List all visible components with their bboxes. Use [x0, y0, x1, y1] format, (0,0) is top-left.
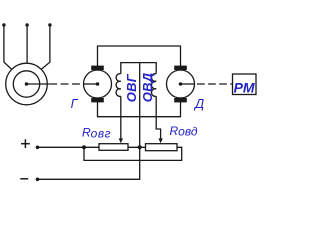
- shaft coupling M to G (dashed): [49, 83, 83, 85]
- shaft coupling D to RM (dashed): [197, 83, 233, 85]
- three-phase supply terminal dots: [2, 23, 51, 26]
- wire: armature top bus G-D: [98, 46, 181, 66]
- wire: plus bus to rheostats: [38, 146, 100, 148]
- junction A (plus bus): [82, 145, 86, 149]
- motor D armature: [167, 66, 195, 103]
- wire: plus bypass under rheostats to Rovd right end: [84, 147, 182, 160]
- field winding OVG (coil): [116, 63, 140, 140]
- junction B (minus bus): [138, 145, 142, 149]
- rheostat Rovd: [146, 144, 178, 151]
- wire: armature bottom bus G-D: [98, 102, 181, 117]
- svg-text:ОВГ: ОВГ: [124, 73, 139, 102]
- svg-text:Д: Д: [193, 96, 204, 111]
- wiper arrow onto Rovg: [119, 138, 123, 143]
- wire: three-phase leads to motor M: [4, 25, 50, 69]
- svg-text:РМ: РМ: [234, 79, 255, 95]
- svg-text:Rовг: Rовг: [82, 126, 111, 141]
- plus terminal: [21, 139, 39, 149]
- wiper arrow onto Rovd: [158, 138, 162, 143]
- wire: negative bus vertical and horizontal: [38, 63, 140, 180]
- generator G armature: [84, 66, 112, 103]
- minus terminal: [20, 178, 39, 182]
- induction motor M (prime mover, double circle): [6, 63, 49, 105]
- field winding OVD (coil): [140, 63, 161, 140]
- working machine RM box: [233, 74, 257, 95]
- rheostat Rovg: [99, 144, 128, 151]
- svg-text:Г: Г: [71, 97, 79, 111]
- svg-text:Rовд: Rовд: [170, 124, 198, 139]
- svg-text:ОВД: ОВД: [140, 72, 155, 102]
